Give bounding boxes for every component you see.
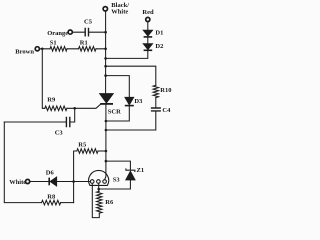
diode D2	[143, 44, 152, 50]
wire: C3 left plate to left rail	[4, 121, 66, 123]
svg-text:R9: R9	[47, 96, 56, 103]
node: C5/trunk junction	[104, 31, 107, 34]
svg-text:C5: C5	[84, 19, 93, 26]
diode D6	[50, 177, 56, 186]
node: R9/gate/C3 junction	[73, 107, 76, 110]
svg-text:Brown: Brown	[15, 48, 34, 55]
terminal Brown	[35, 47, 39, 51]
wire: R10 to C4 lead	[155, 98, 157, 108]
wire: R6 bottom to S3 left pin return	[92, 184, 99, 218]
diode D3	[125, 97, 134, 104]
resistor R8	[42, 200, 61, 205]
wire: Orange/C5 line into trunk	[72, 31, 105, 33]
wire: Red terminal lead to D1	[147, 22, 149, 30]
node: Z1 branch/trunk junction	[105, 160, 108, 163]
wire: D3 branch from trunk	[106, 76, 130, 98]
svg-text:R6: R6	[105, 199, 114, 206]
terminal Red	[146, 17, 150, 21]
wire: White terminal to D6	[30, 181, 49, 183]
svg-text:R5: R5	[78, 141, 87, 148]
svg-text:D6: D6	[46, 169, 55, 176]
wire: Brown junction down to R9	[42, 49, 74, 109]
resistor R5	[77, 149, 98, 154]
wire: riser from R8 through D6 line up to R5	[74, 151, 77, 203]
resistor R10	[153, 85, 158, 97]
svg-text:R10: R10	[160, 87, 171, 94]
wire: R8 right lead to riser	[61, 202, 74, 204]
node: R1/trunk junction	[104, 48, 107, 51]
node: D3 return/trunk junction	[105, 120, 108, 123]
wire: S3 middle pin to junction and R6	[98, 184, 100, 192]
S3 pin 1	[90, 180, 94, 184]
capacitor C3	[66, 117, 69, 126]
resistor R6	[97, 191, 102, 213]
terminal Orange	[68, 30, 72, 34]
node: R10/trunk junction	[104, 65, 107, 68]
node: S3 middle pin/Z1/R6 junction	[97, 188, 100, 191]
svg-text:C4: C4	[162, 107, 171, 114]
wire: Brown-S1-R1 line into trunk	[40, 48, 106, 50]
wire: D2 cathode down and left to trunk	[106, 50, 148, 58]
resistor R1	[79, 47, 97, 52]
node: C4 return/trunk junction	[105, 129, 108, 132]
node: Brown/R9 junction	[41, 48, 44, 51]
wire: R5 right lead to trunk	[98, 150, 106, 152]
S3 pin 2	[97, 180, 101, 184]
wire: Z1 branch from trunk	[106, 161, 130, 170]
node: D6 line/R5-R8 riser junction	[72, 180, 75, 183]
svg-text:D1: D1	[155, 29, 163, 36]
svg-text:R8: R8	[47, 193, 56, 200]
wire: D1-D2 lead	[147, 37, 149, 43]
resistor S1	[50, 47, 67, 52]
wire: trunk from SCR cathode down to S3 right pin	[105, 104, 106, 179]
transistor S3 package outline	[89, 170, 109, 185]
svg-text:S3: S3	[113, 176, 121, 183]
capacitor C4	[152, 108, 161, 111]
wire: R9 junction down to C3 right plate	[70, 108, 75, 122]
svg-text:R1: R1	[80, 39, 88, 46]
svg-text:C3: C3	[55, 129, 64, 136]
svg-text:White: White	[9, 179, 26, 186]
wire: left rail down to R8 line	[4, 122, 41, 203]
wire: SCR gate to R9 junction	[75, 105, 101, 109]
wire: C4 bottom down and left to trunk	[106, 111, 156, 130]
wire: R10 branch from trunk	[106, 66, 156, 85]
node: D3/trunk junction	[104, 74, 107, 77]
diode D1	[143, 30, 152, 36]
terminal Black/White	[103, 7, 107, 11]
S3 pin 3	[103, 180, 107, 184]
wire: main vertical trunk from Black/White terminal down to SCR anode	[105, 11, 107, 93]
svg-text:Orange: Orange	[47, 30, 68, 37]
wire: D3 cathode down and left to trunk	[106, 106, 129, 121]
svg-text:D2: D2	[155, 43, 163, 50]
SCR: thyristor triangle and cathode bar	[100, 94, 114, 103]
wire: Z1 anode down and left to S3 middle pin junction	[99, 180, 131, 189]
wire: D6 to S3 left pin	[57, 181, 91, 183]
node: D2/trunk junction	[104, 57, 107, 60]
svg-text:Red: Red	[142, 9, 154, 16]
zener diode Z1	[126, 171, 135, 180]
resistor R9	[45, 106, 67, 111]
terminal White	[26, 179, 30, 183]
node: R5/trunk junction	[105, 150, 108, 153]
capacitor C5	[85, 29, 88, 36]
svg-text:S1: S1	[50, 39, 57, 46]
svg-text:D3: D3	[134, 98, 143, 105]
svg-text:SCR: SCR	[108, 108, 121, 115]
svg-text:White: White	[111, 9, 128, 16]
svg-text:Z1: Z1	[137, 167, 145, 174]
